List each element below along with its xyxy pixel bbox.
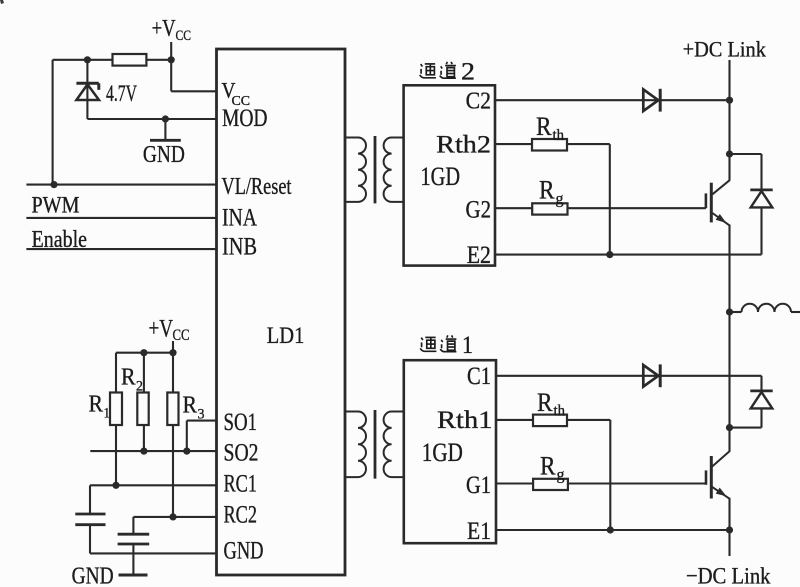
svg-text:CC: CC: [176, 28, 192, 44]
svg-text:GND: GND: [224, 536, 264, 565]
svg-text:R: R: [540, 452, 556, 481]
svg-text:MOD: MOD: [222, 105, 268, 132]
svg-text:GND: GND: [143, 142, 185, 168]
svg-text:R: R: [121, 365, 136, 391]
svg-text:Enable: Enable: [32, 226, 88, 253]
svg-text:SO1: SO1: [224, 407, 258, 436]
svg-text:Rth1: Rth1: [437, 405, 493, 434]
svg-text:R: R: [537, 388, 553, 417]
svg-text:2: 2: [136, 379, 143, 395]
svg-text:+DC Link: +DC Link: [683, 37, 766, 62]
svg-text:R: R: [89, 392, 104, 418]
svg-text:G1: G1: [466, 472, 491, 499]
svg-text:Rth2: Rth2: [436, 130, 491, 159]
svg-text:1: 1: [462, 330, 473, 359]
svg-text:E1: E1: [467, 516, 491, 545]
svg-text:−DC Link: −DC Link: [686, 564, 771, 587]
svg-text:VL/Reset: VL/Reset: [222, 173, 292, 200]
svg-text:RC1: RC1: [224, 469, 258, 498]
svg-text:+V: +V: [149, 316, 174, 343]
svg-text:RC2: RC2: [224, 500, 258, 529]
svg-text:GND: GND: [72, 563, 114, 587]
svg-text:g: g: [556, 191, 564, 208]
svg-text:LD1: LD1: [267, 323, 305, 349]
svg-text:C1: C1: [467, 363, 491, 390]
svg-text:g: g: [557, 467, 565, 484]
svg-text:2: 2: [461, 56, 475, 85]
svg-text:1GD: 1GD: [422, 437, 463, 467]
svg-text:PWM: PWM: [32, 193, 80, 218]
svg-text:R: R: [183, 393, 198, 419]
svg-text:1GD: 1GD: [421, 162, 461, 191]
svg-text:CC: CC: [173, 327, 190, 344]
svg-text:INB: INB: [222, 234, 257, 261]
svg-text:+V: +V: [152, 15, 176, 42]
svg-text:R: R: [536, 112, 552, 141]
svg-text:R: R: [539, 176, 555, 205]
svg-text:th: th: [553, 127, 565, 144]
svg-text:4.7V: 4.7V: [106, 81, 137, 107]
svg-text:1: 1: [104, 406, 111, 422]
svg-text:G2: G2: [466, 197, 492, 224]
svg-text:E2: E2: [467, 240, 491, 269]
svg-text:SO2: SO2: [224, 437, 259, 466]
svg-text:3: 3: [198, 407, 205, 423]
svg-text:th: th: [554, 403, 566, 420]
svg-text:INA: INA: [222, 205, 257, 232]
svg-text:C2: C2: [466, 88, 491, 115]
